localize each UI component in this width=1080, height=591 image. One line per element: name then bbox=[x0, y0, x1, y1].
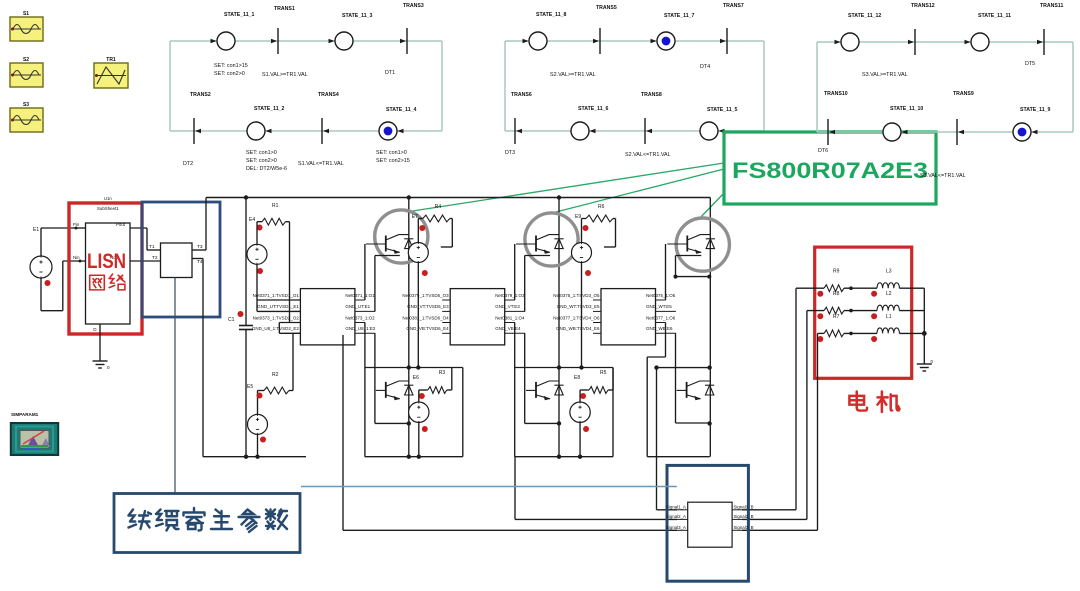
svg-text:STATE_11_3: STATE_11_3 bbox=[342, 13, 372, 19]
text cable-parasitics glyph 2 bbox=[156, 510, 179, 531]
svg-text:TRANS8: TRANS8 bbox=[641, 92, 662, 98]
svg-text:STATE_11_2: STATE_11_2 bbox=[254, 106, 284, 112]
pin O + wire to ground bbox=[93, 324, 100, 361]
svg-text:R7: R7 bbox=[833, 314, 840, 320]
wire R5 left bbox=[580, 390, 589, 402]
annotation red box motor bbox=[815, 247, 912, 378]
wire R1 right down bbox=[279, 222, 300, 334]
state STATE_11_3 bbox=[329, 13, 373, 50]
svg-text:FS800R07A2E3: FS800R07A2E3 bbox=[732, 158, 928, 183]
transistor Q5 upper IGBT bbox=[667, 235, 715, 254]
wire E1 bottom to Nin bbox=[41, 261, 86, 311]
svg-text:GND_U8_1:E2: GND_U8_1:E2 bbox=[345, 326, 376, 331]
source E5 label bbox=[247, 384, 253, 390]
capacitor C1 bbox=[228, 317, 253, 330]
transition TRANS7 bbox=[720, 3, 744, 54]
wire Signal1_B to motor row1 bbox=[742, 288, 796, 510]
source E1 label bbox=[33, 227, 39, 233]
inductor L3 bbox=[877, 269, 899, 289]
svg-text:TRANS5: TRANS5 bbox=[596, 5, 617, 11]
resistor R9 bbox=[824, 269, 844, 292]
label SET: con1gt0 bbox=[246, 150, 277, 156]
state STATE_11_6 bbox=[571, 106, 608, 140]
source S3 (sine) bbox=[10, 108, 43, 132]
text cable-parasitics glyph 1 bbox=[129, 510, 152, 530]
svg-text:DT2: DT2 bbox=[183, 161, 193, 167]
svg-text:SET: con1>0: SET: con1>0 bbox=[376, 150, 407, 156]
pin Signal2_A bbox=[666, 514, 688, 520]
state STATE_11_9 bbox=[1013, 107, 1050, 141]
label S3.VALlt=TR1.VAL bbox=[920, 173, 966, 179]
green callout line to Q3 bbox=[552, 169, 724, 213]
pin Signal2_B bbox=[732, 514, 753, 520]
svg-text:S2.VAL<=TR1.VAL: S2.VAL<=TR1.VAL bbox=[625, 152, 671, 158]
source TR1 (triangle) bbox=[94, 63, 128, 88]
source S3 label bbox=[23, 102, 29, 108]
svg-text:O: O bbox=[93, 327, 97, 332]
svg-text:STATE_11_11: STATE_11_11 bbox=[978, 13, 1011, 19]
pin Signal1_A bbox=[666, 504, 688, 510]
label S1.VALgt=TR1.VAL bbox=[262, 72, 308, 78]
wire Signal3_B to motor row3 bbox=[742, 333, 818, 530]
transition TRANS5 bbox=[593, 5, 617, 54]
state STATE_11_12 bbox=[835, 13, 882, 51]
svg-text:0: 0 bbox=[107, 365, 110, 370]
svg-text:Pin: Pin bbox=[73, 222, 80, 227]
transistor lower IGBT leg2 bbox=[526, 381, 564, 400]
wire state machine 2 loop bbox=[505, 41, 764, 131]
svg-text:Net0379_1:O3: Net0379_1:O3 bbox=[495, 293, 525, 298]
red probe dots row 1 bbox=[817, 291, 877, 297]
subsheet LISN block bbox=[86, 223, 131, 324]
wire phase leg3 bbox=[709, 198, 711, 457]
wire T3 to DC+ bus bbox=[205, 198, 207, 251]
wire E9 to phase node bbox=[579, 263, 583, 370]
gate unit block U2 (TVSD5/6) bbox=[402, 289, 525, 345]
annotation red box LISN bbox=[69, 203, 142, 334]
cable subsheet block bbox=[688, 502, 732, 547]
wire leg2 tap to Signal2 bbox=[515, 457, 677, 520]
pin Signal1_B bbox=[732, 504, 753, 510]
source E6 bbox=[409, 375, 429, 432]
svg-text:GND_VT:TVSD5_E3: GND_VT:TVSD5_E3 bbox=[407, 304, 449, 309]
label SET: con2gt15 bbox=[376, 158, 410, 164]
svg-text:STATE_11_1: STATE_11_1 bbox=[224, 12, 254, 18]
svg-text:TRANS10: TRANS10 bbox=[824, 91, 848, 97]
green callout line to Q5 bbox=[699, 193, 724, 219]
svg-text:STATE_11_9: STATE_11_9 bbox=[1020, 107, 1050, 113]
wire phase leg1 bbox=[408, 198, 410, 457]
source S1 label bbox=[23, 11, 29, 17]
source E4 label bbox=[249, 217, 255, 223]
svg-text:DEL: DT2/W5e-6: DEL: DT2/W5e-6 bbox=[246, 166, 287, 172]
svg-text:Net0373_1:TVSD2_O2: Net0373_1:TVSD2_O2 bbox=[253, 315, 300, 320]
svg-text:R5: R5 bbox=[600, 370, 607, 376]
svg-text:Net0375_1:O5: Net0375_1:O5 bbox=[646, 293, 676, 298]
block SIMPARAM1 bbox=[11, 423, 58, 455]
pin Nout bbox=[110, 255, 161, 261]
svg-text:Pout: Pout bbox=[116, 222, 126, 227]
junction C1 rail bbox=[244, 455, 248, 459]
svg-text:E4: E4 bbox=[249, 217, 255, 223]
resistor R1 bbox=[262, 203, 286, 225]
transition TRANS12 bbox=[908, 3, 935, 55]
svg-text:GND_UT:E1: GND_UT:E1 bbox=[345, 304, 370, 309]
wire motor row 2 bbox=[807, 309, 924, 313]
wire phase leg2 bbox=[558, 198, 560, 457]
svg-text:E6: E6 bbox=[413, 375, 419, 381]
svg-text:Net0375_1:TSVD3_O5: Net0375_1:TSVD3_O5 bbox=[553, 293, 600, 298]
svg-text:STATE_11_5: STATE_11_5 bbox=[707, 107, 737, 113]
svg-text:STATE_11_7: STATE_11_7 bbox=[664, 13, 694, 19]
wire motor row 1 bbox=[796, 286, 924, 290]
wire R3 left bbox=[419, 390, 428, 402]
wire gate upper leg1 bbox=[364, 244, 366, 300]
source E7 bbox=[408, 214, 428, 276]
label DT6 bbox=[818, 148, 828, 154]
annotation blue box (coupling) bbox=[142, 202, 220, 317]
annotation navy box cable parasitics bbox=[114, 494, 300, 553]
pin T2 bbox=[152, 255, 158, 261]
wire C1 column bbox=[245, 198, 247, 457]
svg-text:DT6: DT6 bbox=[818, 148, 828, 154]
resistor R5 bbox=[589, 370, 608, 393]
text dian-ji (motor) bbox=[849, 391, 899, 412]
wire E4 to R1 bbox=[257, 222, 262, 245]
wire R2 left to E5 bbox=[258, 391, 265, 415]
svg-text:TRANS6: TRANS6 bbox=[511, 92, 532, 98]
wire R3 right bbox=[447, 368, 452, 391]
svg-text:Net0381_1:O4: Net0381_1:O4 bbox=[495, 315, 525, 320]
pin Pout bbox=[116, 222, 147, 228]
svg-text:GND_WB:TSVD4_E6: GND_WB:TSVD4_E6 bbox=[556, 326, 600, 331]
pin Nin bbox=[73, 255, 82, 263]
svg-text:S1.VAL<=TR1.VAL: S1.VAL<=TR1.VAL bbox=[298, 161, 344, 167]
pin Signal3_A bbox=[666, 525, 688, 531]
source S1 (sine) bbox=[10, 17, 43, 41]
gate unit block U3 (TSVD3/4) bbox=[553, 289, 676, 345]
text cable-parasitics glyph 3 bbox=[184, 508, 205, 531]
ground (motor) bbox=[917, 359, 934, 371]
wire R2 right to TVS E2 bbox=[279, 333, 300, 390]
svg-text:S1.VAL>=TR1.VAL: S1.VAL>=TR1.VAL bbox=[262, 72, 308, 78]
red probe dot E5+ bbox=[257, 393, 263, 399]
text LISN bbox=[87, 250, 126, 273]
svg-text:R8: R8 bbox=[833, 291, 840, 297]
pin Pin bbox=[73, 222, 86, 230]
resistor R4 bbox=[423, 204, 450, 222]
wire state machine 1 loop bbox=[170, 41, 442, 131]
red probe dot E1 bbox=[45, 280, 51, 286]
svg-text:TRANS9: TRANS9 bbox=[953, 91, 974, 97]
resistor R8 bbox=[824, 291, 844, 314]
state STATE_11_10 bbox=[883, 106, 923, 141]
svg-text:TR1: TR1 bbox=[106, 57, 116, 63]
svg-text:TRANS3: TRANS3 bbox=[403, 3, 424, 9]
resistor R3 bbox=[428, 370, 447, 393]
label S2.VALlt=TR1.VAL bbox=[625, 152, 671, 158]
wire E7 to phase node bbox=[416, 263, 420, 370]
state STATE_11_5 bbox=[700, 107, 737, 140]
svg-text:E5: E5 bbox=[247, 384, 253, 390]
svg-text:T3: T3 bbox=[197, 244, 203, 250]
svg-text:Signal3_A: Signal3_A bbox=[666, 525, 686, 530]
source E1 bbox=[30, 256, 52, 278]
pin T4 bbox=[192, 259, 203, 266]
wire phase node leg2 bbox=[515, 365, 613, 369]
svg-text:S1: S1 bbox=[23, 11, 29, 17]
svg-text:Signal2_A: Signal2_A bbox=[666, 514, 686, 519]
transition TRANS6 bbox=[511, 92, 532, 144]
annotation box FS800R07A2E3 bbox=[724, 132, 936, 204]
svg-text:Signal1_A: Signal1_A bbox=[666, 504, 686, 509]
wire gate upper leg2 bbox=[514, 244, 516, 300]
text cable-parasitics glyph 4 bbox=[211, 510, 232, 530]
wire R4 right bbox=[441, 219, 453, 248]
svg-text:Net0377_1:O6: Net0377_1:O6 bbox=[646, 315, 676, 320]
resistor R7 bbox=[824, 314, 844, 337]
source E9 bbox=[572, 214, 592, 276]
svg-text:Signal3_B: Signal3_B bbox=[734, 525, 754, 530]
label SET: con2gt0 bbox=[214, 71, 245, 77]
resistor R2 bbox=[264, 372, 289, 394]
wire motor row 3 bbox=[818, 332, 925, 336]
svg-text:GND_UT:TVSD1_E1: GND_UT:TVSD1_E1 bbox=[257, 304, 299, 309]
label DT2 bbox=[183, 161, 193, 167]
label DT1 bbox=[385, 70, 395, 76]
junction DC+ leg1 bbox=[407, 195, 411, 199]
svg-text:L1: L1 bbox=[886, 314, 892, 320]
label DT4 bbox=[700, 64, 710, 70]
wire motor star to ground bbox=[922, 288, 927, 364]
svg-text:STATE_11_10: STATE_11_10 bbox=[890, 106, 923, 112]
svg-text:R3: R3 bbox=[439, 370, 446, 376]
svg-text:E7: E7 bbox=[412, 214, 418, 220]
junction DC+ C1 bbox=[244, 195, 248, 199]
source TR1 label bbox=[106, 57, 116, 63]
svg-text:SubSheet1: SubSheet1 bbox=[97, 206, 119, 211]
red probe dots row 3 bbox=[817, 336, 877, 342]
svg-text:GND_VB:TVSD6_E4: GND_VB:TVSD6_E4 bbox=[406, 326, 449, 331]
wire leg3 phase tap to Signal1 bbox=[657, 368, 678, 510]
svg-text:S2.VAL>=TR1.VAL: S2.VAL>=TR1.VAL bbox=[550, 72, 596, 78]
label SET: con1gt15 bbox=[214, 63, 248, 69]
text wang-luo (network) bbox=[90, 274, 125, 290]
svg-text:TRANS11: TRANS11 bbox=[1040, 3, 1063, 9]
transition TRANS11 bbox=[1037, 3, 1063, 55]
wire callout cable annotation bbox=[301, 486, 677, 488]
svg-text:TRANS4: TRANS4 bbox=[318, 92, 339, 98]
wire E1 top to Pin bbox=[41, 228, 73, 256]
svg-text:S3.VAL<=TR1.VAL: S3.VAL<=TR1.VAL bbox=[920, 173, 966, 179]
svg-text:T1: T1 bbox=[149, 244, 155, 250]
wire DC+ bus bbox=[206, 197, 710, 199]
label SET: con2gt0 bbox=[246, 158, 277, 164]
label U1n bbox=[104, 196, 112, 201]
svg-text:Signal1_B: Signal1_B bbox=[734, 504, 754, 509]
pin T3 bbox=[192, 244, 206, 250]
svg-text:Net0371_1:O1: Net0371_1:O1 bbox=[345, 293, 375, 298]
pin T1 bbox=[147, 228, 161, 250]
wire lower cell leg2 bbox=[515, 323, 613, 457]
wire emitter loop upper leg3 bbox=[674, 256, 712, 279]
svg-text:E1: E1 bbox=[33, 227, 39, 233]
svg-text:R9: R9 bbox=[833, 269, 840, 275]
wire phase node leg1 bbox=[365, 365, 463, 369]
gate splitter block T bbox=[161, 243, 193, 278]
svg-text:TRANS2: TRANS2 bbox=[190, 92, 211, 98]
svg-text:S2: S2 bbox=[23, 57, 29, 63]
svg-text:DT3: DT3 bbox=[505, 150, 515, 156]
inductor L2 bbox=[877, 291, 899, 311]
wire emitter loop upper leg2 bbox=[525, 256, 550, 312]
inductor L1 bbox=[877, 314, 899, 334]
svg-text:SET: con2>15: SET: con2>15 bbox=[376, 158, 410, 164]
svg-text:R6: R6 bbox=[598, 204, 605, 210]
ground (LISN) bbox=[93, 361, 111, 370]
svg-text:SET: con1>15: SET: con1>15 bbox=[214, 63, 248, 69]
wire callout to cable box bbox=[174, 278, 176, 494]
svg-text:GND_VT:E3: GND_VT:E3 bbox=[495, 304, 520, 309]
transition TRANS8 bbox=[641, 92, 662, 144]
svg-text:Net0377_1:TSVD4_O6: Net0377_1:TSVD4_O6 bbox=[553, 315, 600, 320]
state STATE_11_4 bbox=[379, 107, 416, 140]
svg-text:R2: R2 bbox=[272, 372, 279, 378]
source S2 label bbox=[23, 57, 29, 63]
svg-text:C1: C1 bbox=[228, 317, 235, 323]
source E4 bbox=[247, 244, 267, 264]
svg-text:L2: L2 bbox=[886, 291, 892, 297]
svg-text:R1: R1 bbox=[272, 203, 279, 209]
label SubSheet1 bbox=[97, 206, 119, 211]
label DEL: DT2/W5e-6 bbox=[246, 166, 287, 172]
svg-text:Signal2_B: Signal2_B bbox=[734, 514, 754, 519]
junction DC+ leg2 bbox=[557, 195, 561, 199]
source E8 bbox=[570, 375, 590, 432]
label S3.VALgt=TR1.VAL bbox=[862, 72, 908, 78]
transistor lower IGBT leg1 bbox=[376, 381, 414, 400]
svg-text:STATE_11_6: STATE_11_6 bbox=[578, 106, 608, 112]
label SIMPARAM1 bbox=[11, 412, 39, 417]
svg-text:R4: R4 bbox=[435, 204, 442, 210]
red probe dot C1 bbox=[238, 311, 244, 317]
wire emitter loop lower leg2 bbox=[525, 333, 562, 425]
wire E8 to rail bbox=[557, 422, 582, 459]
transistor Q1 upper IGBT bbox=[366, 235, 414, 254]
svg-text:SET: con1>0: SET: con1>0 bbox=[246, 150, 277, 156]
label DT3 bbox=[505, 150, 515, 156]
transition TRANS9 bbox=[953, 91, 974, 145]
wire emitter loop upper leg1 bbox=[375, 256, 400, 312]
wire DC- rail bbox=[203, 456, 306, 458]
svg-text:S3.VAL>=TR1.VAL: S3.VAL>=TR1.VAL bbox=[862, 72, 908, 78]
green callout line to Q1 bbox=[406, 163, 724, 212]
highlight circle Q3 bbox=[525, 213, 578, 266]
annotation navy box cable subsheet bbox=[667, 465, 748, 581]
highlight circle Q5 bbox=[676, 218, 729, 271]
svg-text:T2: T2 bbox=[152, 255, 158, 261]
red probe dot E4- bbox=[257, 268, 263, 274]
svg-text:STATE_11_8: STATE_11_8 bbox=[536, 12, 566, 18]
gate unit block U1 (TVSD1/2) bbox=[252, 289, 376, 345]
svg-text:GND_VB:E4: GND_VB:E4 bbox=[495, 326, 521, 331]
text cable-parasitics glyph 5 bbox=[239, 510, 260, 533]
transistor Q3 upper IGBT bbox=[516, 235, 564, 254]
svg-text:DT5: DT5 bbox=[1025, 61, 1035, 67]
svg-text:TRANS7: TRANS7 bbox=[723, 3, 744, 9]
svg-text:Net0371_1:TVSD1_O1: Net0371_1:TVSD1_O1 bbox=[253, 293, 300, 298]
state STATE_11_7 bbox=[651, 13, 695, 50]
state STATE_11_8 bbox=[523, 12, 567, 50]
wire phase node leg3 bbox=[654, 365, 712, 369]
svg-text:TRANS12: TRANS12 bbox=[911, 3, 935, 9]
transistor lower IGBT leg3 bbox=[677, 381, 715, 400]
wire E5 to rail bbox=[255, 434, 259, 459]
svg-text:SET: con2>0: SET: con2>0 bbox=[214, 71, 245, 77]
wire emitter loop lower leg1 bbox=[375, 333, 411, 425]
svg-text:E8: E8 bbox=[574, 375, 580, 381]
svg-text:GND_WT:E5: GND_WT:E5 bbox=[646, 304, 672, 309]
svg-text:DT4: DT4 bbox=[700, 64, 710, 70]
wire Signal2_B to motor row2 bbox=[742, 311, 807, 520]
source S2 (sine) bbox=[10, 63, 43, 87]
red probe dots row 2 bbox=[817, 313, 877, 319]
label SET: con1gt0 bbox=[376, 150, 407, 156]
svg-text:S3: S3 bbox=[23, 102, 29, 108]
transition TRANS2 bbox=[190, 92, 211, 144]
label S2.VALgt=TR1.VAL bbox=[550, 72, 596, 78]
svg-text:STATE_11_4: STATE_11_4 bbox=[386, 107, 416, 113]
svg-text:Nin: Nin bbox=[73, 255, 80, 260]
wire lower cell leg3 bbox=[647, 323, 709, 457]
red probe dot E5- bbox=[260, 437, 266, 443]
state STATE_11_2 bbox=[247, 106, 284, 140]
red probe dot E4+ bbox=[257, 225, 263, 231]
svg-text:Net0373_1:O2: Net0373_1:O2 bbox=[345, 315, 375, 320]
wire R4 left bbox=[418, 219, 423, 243]
label DT5 bbox=[1025, 61, 1035, 67]
source E5 bbox=[248, 414, 268, 434]
text cable-parasitics glyph 6 bbox=[266, 510, 287, 530]
wire emitter loop lower leg3 bbox=[676, 333, 712, 425]
highlight circle Q1 bbox=[375, 210, 428, 263]
svg-text:GND_WB:E6: GND_WB:E6 bbox=[646, 326, 673, 331]
state STATE_11_1 bbox=[211, 12, 255, 50]
label S1.VALlt=TR1.VAL bbox=[298, 161, 344, 167]
svg-text:TRANS1: TRANS1 bbox=[274, 6, 295, 12]
pin Signal3_B bbox=[732, 525, 753, 531]
svg-text:L3: L3 bbox=[886, 269, 892, 275]
transition TRANS3 bbox=[400, 3, 424, 54]
wire E6 to rail bbox=[407, 422, 421, 459]
transition TRANS4 bbox=[318, 92, 339, 144]
svg-text:STATE_11_12: STATE_11_12 bbox=[848, 13, 881, 19]
svg-text:SIMPARAM1: SIMPARAM1 bbox=[11, 412, 39, 417]
wire gate upper leg3 bbox=[665, 244, 667, 300]
transition TRANS10 bbox=[824, 91, 848, 145]
wire leg1 tap to Signal3 bbox=[343, 335, 677, 530]
svg-text:DT1: DT1 bbox=[385, 70, 395, 76]
wire E4 to TVS O1 bbox=[257, 264, 300, 311]
svg-text:GND_WT:TSVD3_E5: GND_WT:TSVD3_E5 bbox=[557, 304, 600, 309]
state STATE_11_11 bbox=[965, 13, 1012, 51]
wire lower cell leg1 bbox=[365, 323, 463, 457]
wire R5 right bbox=[608, 368, 613, 391]
svg-text:E9: E9 bbox=[575, 214, 581, 220]
wire state machine 3 loop bbox=[817, 42, 1073, 132]
resistor R6 bbox=[586, 204, 613, 222]
wire R6 left bbox=[582, 219, 587, 243]
